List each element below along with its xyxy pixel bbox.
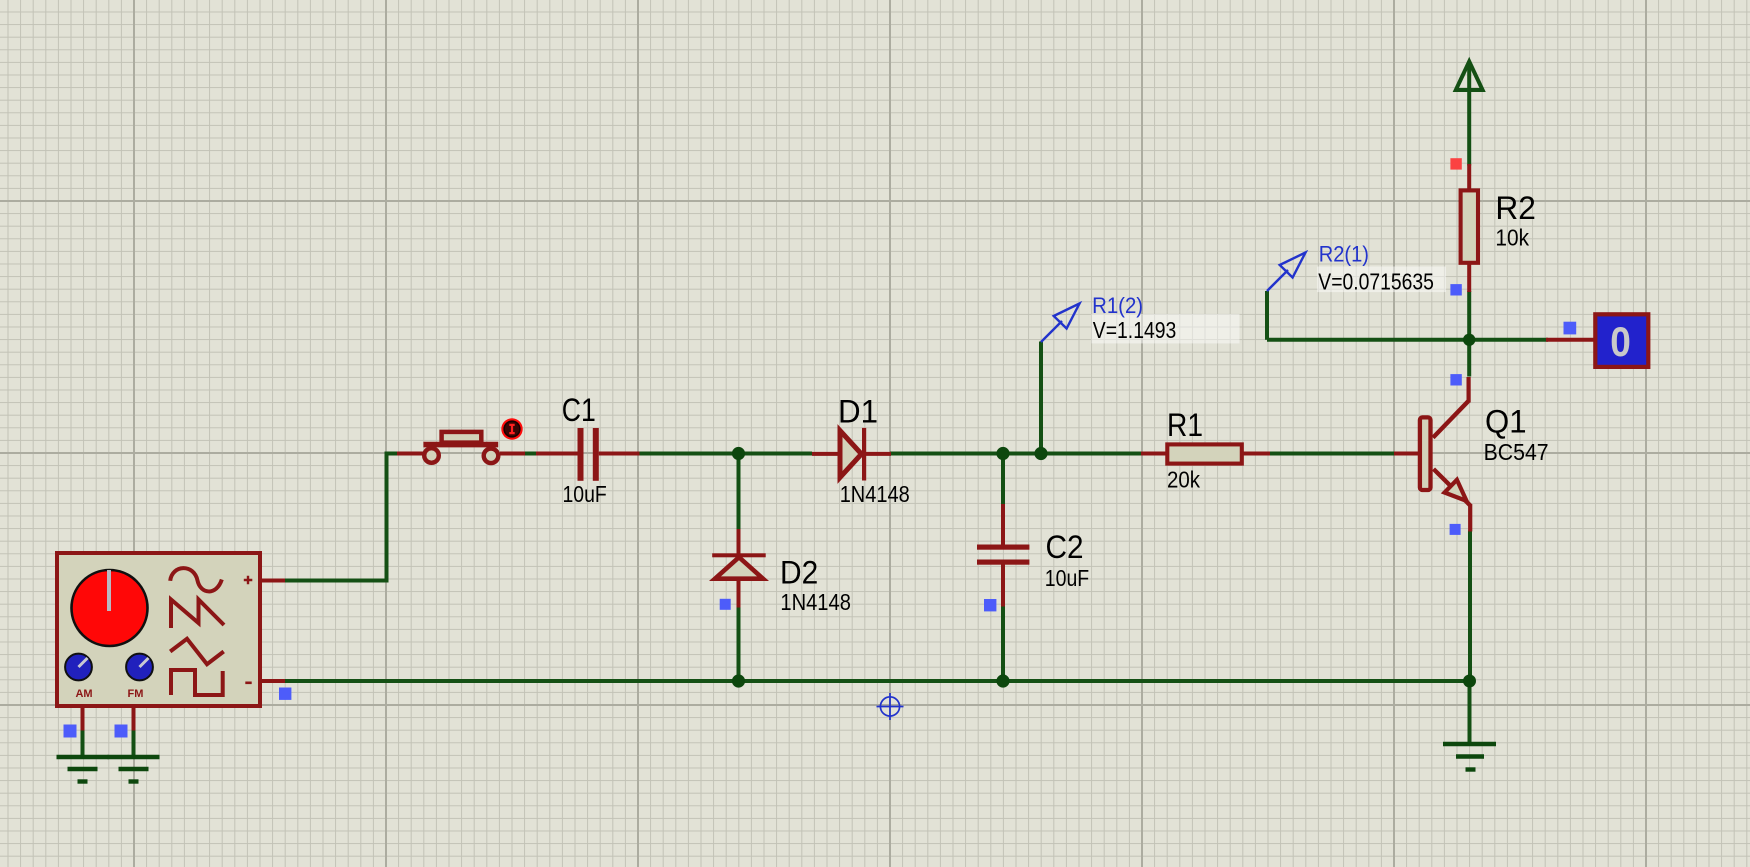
wire collector node down: [1467, 340, 1471, 377]
svg-text:BC547: BC547: [1484, 439, 1549, 465]
wire R1 to Q1 base: [1270, 452, 1396, 456]
wire emitter down to rail: [1468, 531, 1472, 682]
resistor R1 body: [1167, 444, 1242, 463]
svg-text:R2(1): R2(1): [1319, 241, 1369, 266]
generator + terminal mark: [244, 576, 253, 584]
handle generator right: [115, 725, 128, 738]
svg-text:D2: D2: [780, 555, 818, 591]
probe R1(2) label background: [1092, 314, 1240, 343]
wire rail to right ground: [1468, 681, 1472, 742]
svg-text:Q1: Q1: [1485, 404, 1527, 440]
origin crosshair marker: [877, 693, 904, 720]
wire bottom rail: [284, 679, 1470, 683]
diode D2 pin bottom: [737, 580, 741, 608]
switch SW body: [423, 432, 498, 463]
svg-text:0: 0: [1610, 318, 1631, 365]
svg-text:C1: C1: [562, 392, 596, 428]
probe R2(1) arrow: [1267, 253, 1306, 292]
svg-text:R1: R1: [1167, 407, 1203, 443]
wire C2 branch bottom: [1001, 606, 1005, 682]
handle generator minus wire: [279, 688, 291, 700]
diode D2 body: [712, 553, 766, 578]
generator + pin stub: [260, 579, 285, 583]
generator sine waveform icon: [170, 568, 222, 591]
generator AM knob (blue): [65, 654, 92, 681]
capacitor C1 pin left: [536, 452, 578, 456]
handle R2 top (red): [1450, 158, 1461, 169]
node junction probe R1(2): [1034, 447, 1047, 460]
wire from generator + terminal up to switch: [284, 454, 399, 581]
voltage display 0 box: [1595, 314, 1648, 367]
power VCC arrow: [1456, 62, 1483, 91]
diode D1 pin cathode: [866, 452, 891, 456]
ground at emitter rail right: [1443, 744, 1496, 770]
svg-text:10uF: 10uF: [563, 481, 607, 507]
node junction C2 bottom: [996, 674, 1009, 687]
handle C2 bottom: [984, 599, 996, 611]
svg-text:FM: FM: [128, 688, 144, 700]
ground under generator left pin: [57, 757, 109, 782]
diode D1 body: [840, 428, 866, 481]
transistor Q1 body: [1420, 377, 1470, 532]
handle Q1 collector: [1450, 374, 1461, 385]
wire VCC to R2: [1467, 64, 1471, 166]
handle generator left: [64, 725, 77, 738]
svg-text:AM: AM: [75, 688, 92, 700]
node junction C2 top: [996, 447, 1009, 460]
capacitor C1 plates: [578, 428, 599, 481]
switch actuation marker (red circle 1): [501, 418, 522, 439]
diode D2 pin top: [737, 529, 741, 554]
svg-text:10uF: 10uF: [1045, 565, 1089, 591]
resistor R2 pin top: [1467, 164, 1471, 189]
generator - terminal mark: [245, 681, 251, 684]
switch SW pin left: [397, 452, 424, 456]
node junction emitter rail: [1463, 675, 1476, 688]
capacitor C2 pin bottom: [1001, 564, 1005, 607]
node junction D2 bottom: [732, 674, 745, 687]
handle R2 bottom: [1450, 284, 1461, 295]
capacitor C2 plates: [977, 545, 1029, 565]
wire D2 branch top: [737, 454, 741, 531]
svg-text:C2: C2: [1046, 529, 1084, 565]
resistor R2 pin bottom: [1467, 265, 1471, 293]
resistor R1 pin right: [1243, 452, 1270, 456]
wire R2 to collector node: [1467, 291, 1471, 340]
ground under generator right pin: [108, 757, 160, 782]
diode D1 pin anode: [812, 452, 838, 456]
svg-text:R2: R2: [1495, 190, 1536, 226]
wire D2 branch bottom: [737, 607, 741, 682]
transistor Q1 base pin: [1394, 452, 1419, 456]
generator bottom pin right: [132, 706, 136, 731]
svg-text:10k: 10k: [1495, 225, 1529, 251]
resistor R1 pin left: [1141, 452, 1166, 456]
svg-text:20k: 20k: [1167, 467, 1200, 493]
probe R2(1) label background: [1317, 267, 1446, 293]
wire probe R1(2) stem: [1039, 342, 1043, 454]
wire C1 to D1: [639, 452, 812, 456]
svg-text:R1(2): R1(2): [1092, 293, 1143, 318]
generator triangle waveform icon: [170, 639, 224, 664]
voltage display 0 pin: [1546, 338, 1595, 342]
switch SW pin right: [500, 452, 525, 456]
svg-text:D1: D1: [838, 393, 878, 429]
svg-text:V=1.1493: V=1.1493: [1093, 317, 1177, 343]
generator amplitude knob (red): [72, 570, 148, 646]
signal generator body: [57, 553, 260, 706]
wire collector row horizontal: [1267, 338, 1548, 342]
handle Q1 emitter: [1450, 524, 1461, 535]
handle voltage display: [1564, 322, 1577, 335]
wire C2 branch top: [1001, 454, 1005, 506]
generator square waveform icon: [171, 670, 223, 695]
capacitor C2 pin top: [1001, 504, 1005, 545]
capacitor C1 pin right: [599, 452, 640, 456]
wire probe R2(1) stem: [1265, 291, 1269, 340]
probe R1(2) arrow: [1041, 304, 1080, 343]
generator sawtooth waveform icon: [171, 600, 224, 629]
wire switch to C1: [524, 452, 538, 456]
generator - pin stub: [260, 679, 285, 683]
resistor R2 body: [1461, 190, 1478, 262]
svg-text:1N4148: 1N4148: [780, 589, 851, 615]
handle D2 bottom: [720, 599, 731, 610]
node junction collector: [1463, 334, 1475, 346]
wire D1 to R1: [890, 452, 1142, 456]
node junction D2 top: [732, 447, 745, 460]
generator FM knob (blue): [126, 654, 153, 681]
svg-text:1N4148: 1N4148: [840, 481, 910, 507]
generator bottom pin left: [81, 706, 85, 731]
wire generator ground pin left: [81, 730, 85, 757]
wire generator ground pin right: [132, 730, 136, 757]
svg-text:V=0.0715635: V=0.0715635: [1318, 268, 1434, 294]
